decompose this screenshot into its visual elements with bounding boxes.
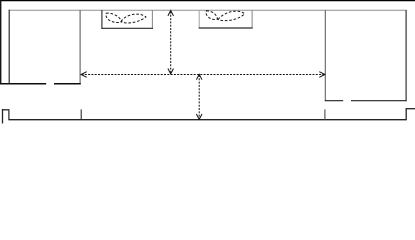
dimension V1 bottom arrow (168, 69, 174, 74)
dimension line V1 (170, 12, 172, 74)
dimension V2 bottom arrow (196, 114, 202, 119)
dimension H1 right arrow (319, 72, 325, 78)
plant symbol 2 left leaf (206, 11, 217, 20)
bottom-right step horizontal (406, 108, 415, 110)
left room bottom wall segment B (54, 83, 81, 85)
cabinet 2 bottom edge (199, 27, 253, 29)
plant symbol 1 right leaf (121, 14, 146, 23)
right room bottom wall segment B (351, 100, 407, 102)
right room left wall (324, 10, 326, 101)
plant symbol 1 left leaf (106, 13, 122, 22)
left room right wall (79, 10, 81, 84)
dimension line V2 (198, 75, 200, 119)
cabinet 2 right edge (251, 10, 253, 29)
cabinet 1 right edge (151, 10, 153, 29)
left border wall (0, 0, 2, 84)
bottom wall long line (8, 119, 406, 121)
left room left wall (8, 10, 10, 84)
cabinet 1 left edge (101, 10, 103, 29)
top border bar (0, 0, 415, 1)
cabinet 1 bottom edge (101, 27, 153, 29)
left room bottom wall segment A (0, 83, 46, 85)
bottom-left stub right drop (8, 109, 10, 119)
right room right wall (405, 10, 407, 101)
right room bottom wall segment A (325, 100, 343, 102)
dimension H1 left arrow (81, 72, 87, 78)
dimension V1 top arrow (168, 11, 174, 16)
bottom-left stub vertical (2, 109, 4, 123)
plant symbol 2 right leaf (218, 11, 245, 21)
dimension line H1 (82, 74, 325, 76)
dimension V2 top arrow (196, 74, 202, 79)
cabinet 2 left edge (198, 10, 200, 29)
bottom-right step vertical (405, 108, 407, 120)
ceiling line (9, 9, 407, 11)
bottom-left stub top (2, 109, 9, 111)
door jamb tick left (80, 109, 82, 120)
door jamb tick right (324, 109, 326, 120)
